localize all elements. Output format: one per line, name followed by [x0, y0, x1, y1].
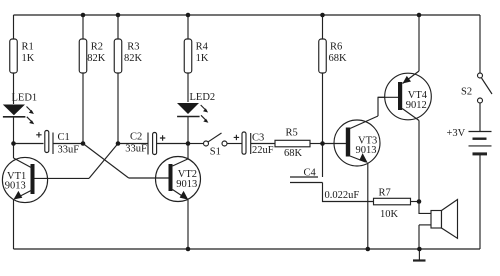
node top rail VT4 — [417, 13, 422, 18]
switch S2 — [461, 15, 492, 132]
svg-text:LED1: LED1 — [12, 92, 38, 103]
svg-text:+3V: +3V — [447, 128, 466, 139]
svg-text:C2: C2 — [130, 132, 142, 143]
resistor R7 — [374, 188, 420, 221]
svg-text:22uF: 22uF — [252, 145, 274, 156]
svg-text:S2: S2 — [461, 87, 472, 98]
capacitor C2 — [118, 132, 188, 155]
svg-text:68K: 68K — [284, 148, 303, 159]
node R5 R6 VT3 — [320, 141, 325, 146]
svg-text:82K: 82K — [124, 53, 143, 64]
svg-text:10K: 10K — [380, 209, 399, 220]
wire top rail — [14, 14, 481, 16]
LED LED2 — [177, 92, 215, 144]
node top rail R2 — [81, 13, 86, 18]
resistor R2 — [79, 15, 105, 144]
node top rail R4 — [186, 13, 191, 18]
transistor VT4 — [378, 15, 431, 202]
wire left branch vertical (R1/LED1/VT1 column) — [13, 15, 15, 39]
battery +3V — [447, 128, 492, 249]
resistor R4 — [184, 15, 209, 102]
svg-text:S1: S1 — [210, 146, 221, 157]
ground — [413, 249, 426, 261]
node top rail R6 — [320, 13, 325, 18]
svg-text:C4: C4 — [304, 168, 317, 179]
svg-text:R5: R5 — [286, 128, 298, 139]
node ground bottom — [417, 247, 422, 252]
svg-text:R6: R6 — [330, 41, 342, 52]
node R3 bottom — [116, 141, 121, 146]
svg-text:9013: 9013 — [356, 145, 377, 156]
resistor R3 — [114, 15, 142, 144]
capacitor C4 — [290, 144, 374, 202]
transistor VT2 — [129, 144, 201, 250]
svg-text:9013: 9013 — [5, 181, 26, 192]
svg-text:R4: R4 — [196, 41, 209, 52]
LED LED1 — [3, 92, 37, 124]
capacitor C1 — [14, 131, 84, 156]
switch S1 — [188, 133, 242, 157]
node VT3 emitter bottom — [366, 247, 371, 252]
svg-text:1K: 1K — [196, 53, 209, 64]
svg-text:9013: 9013 — [176, 179, 197, 190]
svg-text:0.022uF: 0.022uF — [325, 190, 360, 201]
svg-text:R3: R3 — [127, 41, 139, 52]
node R7 speaker — [417, 199, 422, 204]
resistor R6 — [319, 15, 347, 144]
wire bottom rail — [14, 248, 481, 250]
svg-text:R1: R1 — [22, 41, 34, 52]
svg-text:33uF: 33uF — [125, 144, 147, 155]
wire cross-coupling R2 to VT2 base — [83, 144, 129, 179]
svg-text:LED2: LED2 — [190, 92, 216, 103]
svg-text:R2: R2 — [91, 41, 103, 52]
resistor R1 — [10, 39, 35, 73]
svg-text:1K: 1K — [22, 53, 35, 64]
svg-text:68K: 68K — [329, 53, 348, 64]
svg-text:C3: C3 — [252, 132, 264, 143]
resistor R5 — [275, 128, 323, 160]
speaker — [419, 200, 458, 250]
svg-text:82K: 82K — [87, 53, 106, 64]
transistor VT1 — [2, 157, 89, 202]
transistor VT3 — [323, 97, 398, 249]
svg-text:9012: 9012 — [406, 100, 427, 111]
svg-text:33uF: 33uF — [58, 145, 80, 156]
svg-text:R7: R7 — [379, 188, 391, 199]
node top rail R3 — [116, 13, 121, 18]
wire cross-coupling R3 to VT1 base — [89, 144, 118, 179]
node LED2 S1 — [186, 141, 191, 146]
node R2 bottom — [81, 141, 86, 146]
node VT2 emitter bottom — [186, 247, 191, 252]
svg-text:C1: C1 — [58, 132, 70, 143]
capacitor C3 — [234, 132, 275, 156]
node C1 left — [11, 141, 16, 146]
